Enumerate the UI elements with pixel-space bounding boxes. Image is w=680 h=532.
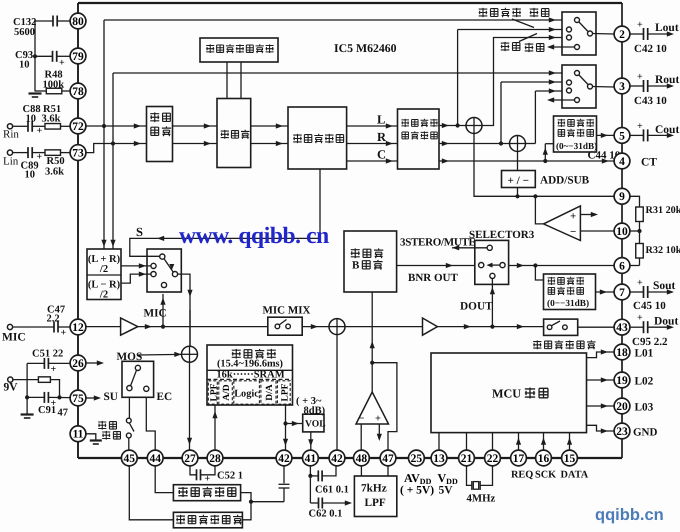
svg-text:80: 80 [72, 16, 84, 28]
svg-text:73: 73 [72, 148, 84, 160]
svg-text:R50: R50 [47, 156, 65, 167]
svg-text:−: − [570, 226, 576, 238]
svg-text:MCU: MCU [492, 387, 521, 401]
svg-text:78: 78 [72, 86, 84, 98]
svg-text:19: 19 [616, 375, 628, 387]
svg-text:C52 1: C52 1 [217, 471, 243, 482]
svg-text:5V: 5V [439, 485, 454, 497]
svg-text:Dout: Dout [654, 316, 678, 328]
svg-text:Rout: Rout [655, 74, 679, 86]
svg-text:25: 25 [411, 453, 423, 465]
svg-text:LPF: LPF [280, 383, 290, 401]
svg-text:8dB): 8dB) [304, 406, 326, 417]
svg-text:S: S [136, 225, 143, 239]
svg-text:(15.4~196.6ms): (15.4~196.6ms) [217, 359, 283, 370]
svg-text:17: 17 [513, 453, 525, 465]
svg-text:−: − [359, 414, 365, 425]
svg-text:7: 7 [619, 287, 625, 299]
svg-text:+: + [51, 364, 57, 375]
svg-text:Cout: Cout [655, 124, 679, 136]
svg-text:+: + [637, 313, 643, 324]
svg-text:DOUT: DOUT [460, 301, 493, 313]
svg-text:L: L [377, 113, 385, 127]
svg-text:18: 18 [616, 347, 628, 359]
svg-text:27: 27 [184, 453, 196, 465]
svg-text:D/A: D/A [265, 384, 275, 401]
svg-text:C62 0.1: C62 0.1 [309, 509, 343, 520]
svg-text:Logic: Logic [234, 389, 259, 400]
svg-text:Rin: Rin [3, 129, 19, 141]
svg-text:3.6k: 3.6k [45, 167, 64, 178]
svg-text:+: + [375, 414, 381, 425]
svg-text:3.6k: 3.6k [42, 114, 61, 125]
svg-text:DATA: DATA [561, 470, 589, 481]
svg-text:L02: L02 [635, 376, 654, 388]
svg-text:C43 10: C43 10 [634, 95, 667, 107]
svg-text:72: 72 [72, 121, 84, 133]
svg-text:47: 47 [382, 453, 394, 465]
svg-text:C91: C91 [38, 405, 56, 416]
svg-text:GND: GND [633, 427, 658, 439]
svg-text:R32 10k: R32 10k [646, 245, 680, 256]
svg-text:IC5 M62460: IC5 M62460 [334, 41, 397, 55]
svg-text:10: 10 [616, 226, 628, 238]
svg-text:5600: 5600 [14, 27, 35, 38]
svg-text:16: 16 [538, 453, 550, 465]
svg-text:LPF: LPF [209, 383, 219, 401]
svg-text:MIC MIX: MIC MIX [263, 305, 311, 317]
svg-text:7kHz: 7kHz [361, 483, 387, 495]
svg-text:C95 2.2: C95 2.2 [632, 336, 668, 348]
svg-text:48: 48 [356, 453, 368, 465]
svg-text:www. qqibb. cn: www. qqibb. cn [179, 223, 329, 249]
svg-text:C42 10: C42 10 [634, 43, 667, 55]
svg-text:C45 10: C45 10 [633, 300, 666, 312]
svg-text:L01: L01 [635, 348, 654, 360]
svg-text:42: 42 [278, 453, 290, 465]
svg-text:15: 15 [564, 453, 576, 465]
svg-text:28: 28 [209, 453, 221, 465]
svg-text:20: 20 [616, 401, 628, 413]
svg-text:22: 22 [487, 453, 499, 465]
svg-text:Lin: Lin [3, 156, 19, 168]
svg-text:qqibb.cn: qqibb.cn [595, 506, 664, 524]
svg-text:23: 23 [616, 426, 628, 438]
svg-text:45: 45 [124, 453, 136, 465]
svg-text:+: + [637, 121, 643, 132]
svg-text:+: + [637, 278, 643, 289]
svg-text:16k······SRAM: 16k······SRAM [216, 370, 284, 381]
svg-text:L03: L03 [635, 402, 654, 414]
svg-text:MIC: MIC [2, 332, 26, 344]
svg-text:21: 21 [461, 453, 473, 465]
svg-text:R31 20k: R31 20k [646, 205, 680, 216]
svg-text:REQ: REQ [511, 470, 533, 481]
svg-text:B: B [352, 260, 360, 272]
svg-text:VOL: VOL [305, 419, 326, 430]
svg-text:LPF: LPF [365, 497, 386, 509]
svg-text:10: 10 [19, 60, 30, 71]
svg-text:/2: /2 [99, 290, 108, 301]
svg-text:2.2: 2.2 [47, 314, 60, 325]
svg-text:C51 22: C51 22 [32, 349, 63, 360]
svg-text:BNR OUT: BNR OUT [408, 272, 458, 284]
svg-text:Sout: Sout [653, 280, 676, 292]
svg-text:10: 10 [25, 170, 36, 181]
svg-text:/2: /2 [99, 264, 108, 275]
svg-text:5: 5 [619, 130, 625, 142]
svg-text:44: 44 [149, 453, 161, 465]
svg-text:(0~−31dB): (0~−31dB) [556, 141, 597, 151]
svg-text:+: + [570, 211, 576, 223]
svg-text:(0−−31dB): (0−−31dB) [547, 299, 589, 309]
svg-text:SELECTOR3: SELECTOR3 [469, 229, 535, 241]
svg-text:9: 9 [619, 191, 625, 203]
svg-text:+: + [61, 328, 67, 339]
svg-text:+: + [59, 58, 65, 69]
svg-text:13: 13 [433, 453, 445, 465]
svg-text:ADD/SUB: ADD/SUB [540, 175, 590, 187]
svg-text:100k: 100k [43, 80, 65, 91]
svg-text:26: 26 [72, 358, 84, 370]
svg-text:42: 42 [331, 453, 343, 465]
svg-text:41: 41 [305, 453, 317, 465]
svg-text:3: 3 [619, 81, 625, 93]
svg-text:4MHz: 4MHz [467, 493, 496, 505]
svg-text:SCK: SCK [535, 470, 556, 481]
svg-text:EC: EC [157, 391, 173, 403]
svg-text:75: 75 [72, 393, 84, 405]
svg-text:A/D: A/D [222, 384, 232, 401]
svg-text:47: 47 [58, 408, 69, 419]
svg-text:+: + [637, 72, 643, 83]
svg-text:Lout: Lout [655, 22, 679, 34]
svg-text:MOS: MOS [117, 351, 143, 363]
svg-text:+ / −: + / − [508, 175, 529, 187]
svg-text:10: 10 [26, 114, 37, 125]
svg-text:+: + [637, 20, 643, 31]
svg-text:3STERO/MUTE: 3STERO/MUTE [400, 237, 476, 249]
svg-text:CT: CT [641, 157, 657, 169]
svg-text:2: 2 [619, 29, 625, 41]
svg-text:12: 12 [72, 322, 84, 334]
svg-text:C: C [377, 148, 386, 162]
svg-text:11: 11 [73, 429, 84, 441]
svg-text:6: 6 [619, 260, 625, 272]
svg-text:MIC: MIC [144, 308, 167, 320]
svg-text:4: 4 [619, 156, 625, 168]
svg-text:( + 5V): ( + 5V) [400, 485, 434, 497]
svg-text:9V: 9V [4, 382, 19, 394]
svg-text:C61 0.1: C61 0.1 [315, 485, 349, 496]
svg-text:43: 43 [616, 322, 628, 334]
svg-text:R: R [377, 130, 387, 144]
svg-text:79: 79 [72, 51, 84, 63]
svg-text:+: + [37, 126, 43, 137]
svg-text:SU: SU [104, 391, 118, 403]
